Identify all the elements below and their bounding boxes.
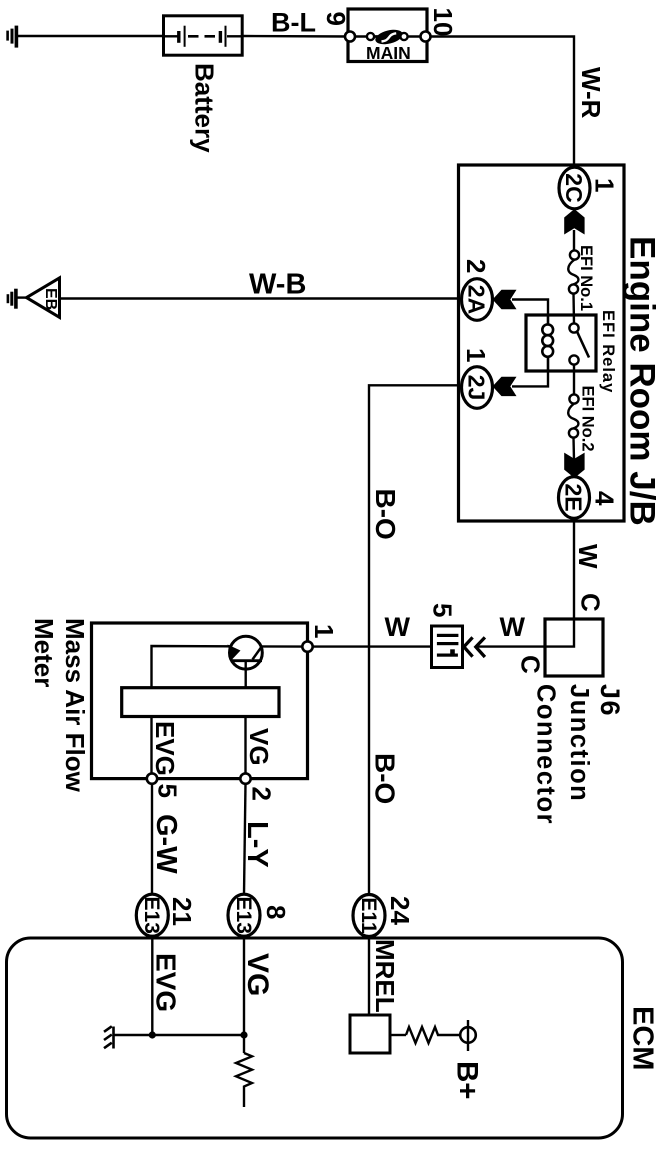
svg-text:MAIN: MAIN bbox=[366, 43, 411, 63]
wire II1 to node 1 bbox=[312, 645, 432, 647]
wire fuse to relay switch bbox=[572, 294, 575, 324]
MAF pin circle 5 (EVG) bbox=[147, 773, 157, 783]
transistor Q1 (MAF) bbox=[230, 636, 263, 669]
fuse EFI No.1 bbox=[570, 250, 579, 259]
connector E13 (8) bbox=[228, 894, 260, 936]
svg-text:5: 5 bbox=[428, 603, 458, 617]
svg-text:B-O: B-O bbox=[370, 753, 401, 804]
svg-text:VG: VG bbox=[241, 953, 274, 996]
svg-text:Meter: Meter bbox=[29, 618, 59, 687]
svg-text:2: 2 bbox=[247, 787, 277, 801]
svg-text:Engine Room J/B: Engine Room J/B bbox=[623, 236, 660, 526]
svg-text:10: 10 bbox=[428, 8, 458, 37]
resistor R2 (to B+) bbox=[406, 1027, 460, 1043]
arrow left to 2A bbox=[493, 290, 517, 309]
arrow left to 2J bbox=[493, 377, 517, 396]
wire coil to 2A bbox=[512, 300, 548, 316]
connector E11 (24) bbox=[353, 895, 385, 937]
svg-text:EFI No.1: EFI No.1 bbox=[577, 245, 595, 311]
ground (battery negative terminal) bbox=[8, 26, 17, 48]
wire ground to battery bbox=[18, 35, 164, 37]
svg-text:2: 2 bbox=[461, 259, 491, 273]
svg-text:L-Y: L-Y bbox=[241, 821, 273, 868]
svg-text:Junction: Junction bbox=[565, 684, 593, 802]
svg-text:W-B: W-B bbox=[249, 269, 306, 301]
svg-text:Battery: Battery bbox=[190, 63, 220, 153]
svg-text:2C: 2C bbox=[561, 173, 587, 202]
wire MREL inside ECM bbox=[368, 936, 370, 1015]
svg-text:ECM: ECM bbox=[627, 1006, 659, 1070]
junction connector J6 box bbox=[545, 619, 603, 676]
Engine Room J/B box bbox=[459, 165, 625, 521]
svg-text:W-R: W-R bbox=[576, 67, 606, 119]
svg-text:EVG: EVG bbox=[150, 721, 180, 776]
svg-text:9: 9 bbox=[321, 12, 351, 26]
svg-text:EFI Relay: EFI Relay bbox=[599, 310, 617, 393]
junction dot (EVG ground) bbox=[149, 1031, 156, 1038]
chevrons bbox=[464, 637, 473, 656]
connector II1 label bbox=[437, 634, 459, 657]
resistor R1 (VG pull-down) bbox=[236, 1053, 252, 1107]
wire arrow to fuse EFI No.1 bbox=[573, 230, 575, 251]
junction dot (VG) bbox=[240, 1031, 247, 1038]
svg-text:G-W: G-W bbox=[150, 814, 182, 874]
MAF pin circle 2 (VG) bbox=[240, 773, 250, 783]
svg-text:W: W bbox=[385, 612, 411, 642]
relay coil bbox=[542, 315, 553, 371]
svg-text:Mass Air Flow: Mass Air Flow bbox=[60, 618, 90, 793]
wire transistor to node 1 and sensing element bbox=[152, 646, 303, 688]
svg-text:E13: E13 bbox=[232, 897, 255, 934]
ground triangle EB bbox=[27, 278, 60, 317]
relay switch bbox=[577, 332, 589, 358]
svg-text:B-L: B-L bbox=[271, 8, 316, 38]
terminal B+ bbox=[460, 1027, 476, 1043]
wire fuse to arrow bbox=[572, 438, 575, 460]
connector 2J bbox=[462, 367, 493, 409]
node 1 bbox=[302, 641, 312, 651]
Mass Air Flow Meter box bbox=[92, 623, 308, 779]
fusible link element bbox=[371, 35, 405, 37]
relay EFI Relay bbox=[526, 315, 596, 371]
MREL driver box bbox=[350, 1015, 390, 1053]
svg-text:J6: J6 bbox=[595, 684, 625, 717]
wire VG inside MAF bbox=[244, 717, 246, 775]
svg-text:EVG: EVG bbox=[151, 953, 182, 1012]
wire G-W to E13 bbox=[151, 784, 153, 894]
arrow up to 2C bbox=[564, 209, 584, 235]
wire EVG inside ECM bbox=[151, 936, 153, 1035]
wire W-B from EB ground to 2A bbox=[61, 297, 459, 299]
connector 2C bbox=[559, 167, 590, 209]
svg-text:E11: E11 bbox=[357, 897, 380, 934]
svg-text:1: 1 bbox=[461, 348, 491, 362]
svg-text:EFI No.2: EFI No.2 bbox=[579, 386, 597, 452]
connector 2A bbox=[462, 279, 493, 321]
svg-text:EB: EB bbox=[42, 288, 59, 310]
svg-text:2E: 2E bbox=[561, 483, 587, 511]
svg-text:2A: 2A bbox=[464, 285, 490, 314]
fuse MAIN bbox=[348, 9, 427, 62]
ECM box bbox=[7, 938, 623, 1138]
wire L-Y to E13 bbox=[244, 784, 246, 894]
svg-text:5: 5 bbox=[153, 784, 183, 798]
wire switch to fuse EFI No.2 bbox=[573, 365, 575, 395]
svg-text:B+: B+ bbox=[451, 1061, 484, 1100]
wire to resistor bbox=[390, 1034, 406, 1036]
svg-text:B-O: B-O bbox=[370, 489, 401, 540]
ground EB bbox=[8, 289, 28, 309]
fuse EFI No.2 bbox=[569, 394, 578, 403]
wire J6 to II1 bbox=[478, 645, 546, 647]
svg-text:2J: 2J bbox=[464, 375, 490, 401]
connector E13 (21) bbox=[136, 894, 168, 936]
svg-text:8: 8 bbox=[261, 905, 291, 919]
svg-text:24: 24 bbox=[385, 896, 415, 925]
internal ground wire bbox=[114, 1034, 245, 1036]
internal ground symbol bbox=[104, 1026, 114, 1048]
wire 2E to J6 bbox=[573, 520, 575, 620]
battery bbox=[164, 16, 243, 55]
wire battery to MAIN fuse bbox=[242, 35, 350, 38]
arrow down to 2E bbox=[564, 453, 584, 478]
svg-text:1: 1 bbox=[309, 624, 339, 638]
svg-text:1: 1 bbox=[590, 178, 620, 192]
wire fuse to J/B 2C bbox=[431, 37, 575, 168]
svg-text:4: 4 bbox=[590, 491, 620, 506]
svg-text:MREL: MREL bbox=[370, 939, 400, 1013]
wire B-O from 2J down to E11 bbox=[369, 385, 459, 897]
svg-text:E13: E13 bbox=[140, 897, 163, 934]
wire VG inside ECM bbox=[243, 936, 245, 1053]
svg-text:W: W bbox=[573, 544, 603, 569]
connector II1 bbox=[432, 626, 463, 668]
sensing element bbox=[122, 688, 279, 717]
svg-text:VG: VG bbox=[244, 728, 274, 766]
wire coil to 2J bbox=[512, 371, 548, 386]
svg-text:C: C bbox=[516, 655, 546, 674]
connector 2E bbox=[559, 477, 590, 519]
wire EVG inside MAF bbox=[150, 717, 152, 775]
svg-text:W: W bbox=[500, 612, 526, 642]
svg-text:Connector: Connector bbox=[531, 684, 559, 825]
svg-text:21: 21 bbox=[167, 897, 197, 926]
svg-text:C: C bbox=[576, 593, 606, 612]
